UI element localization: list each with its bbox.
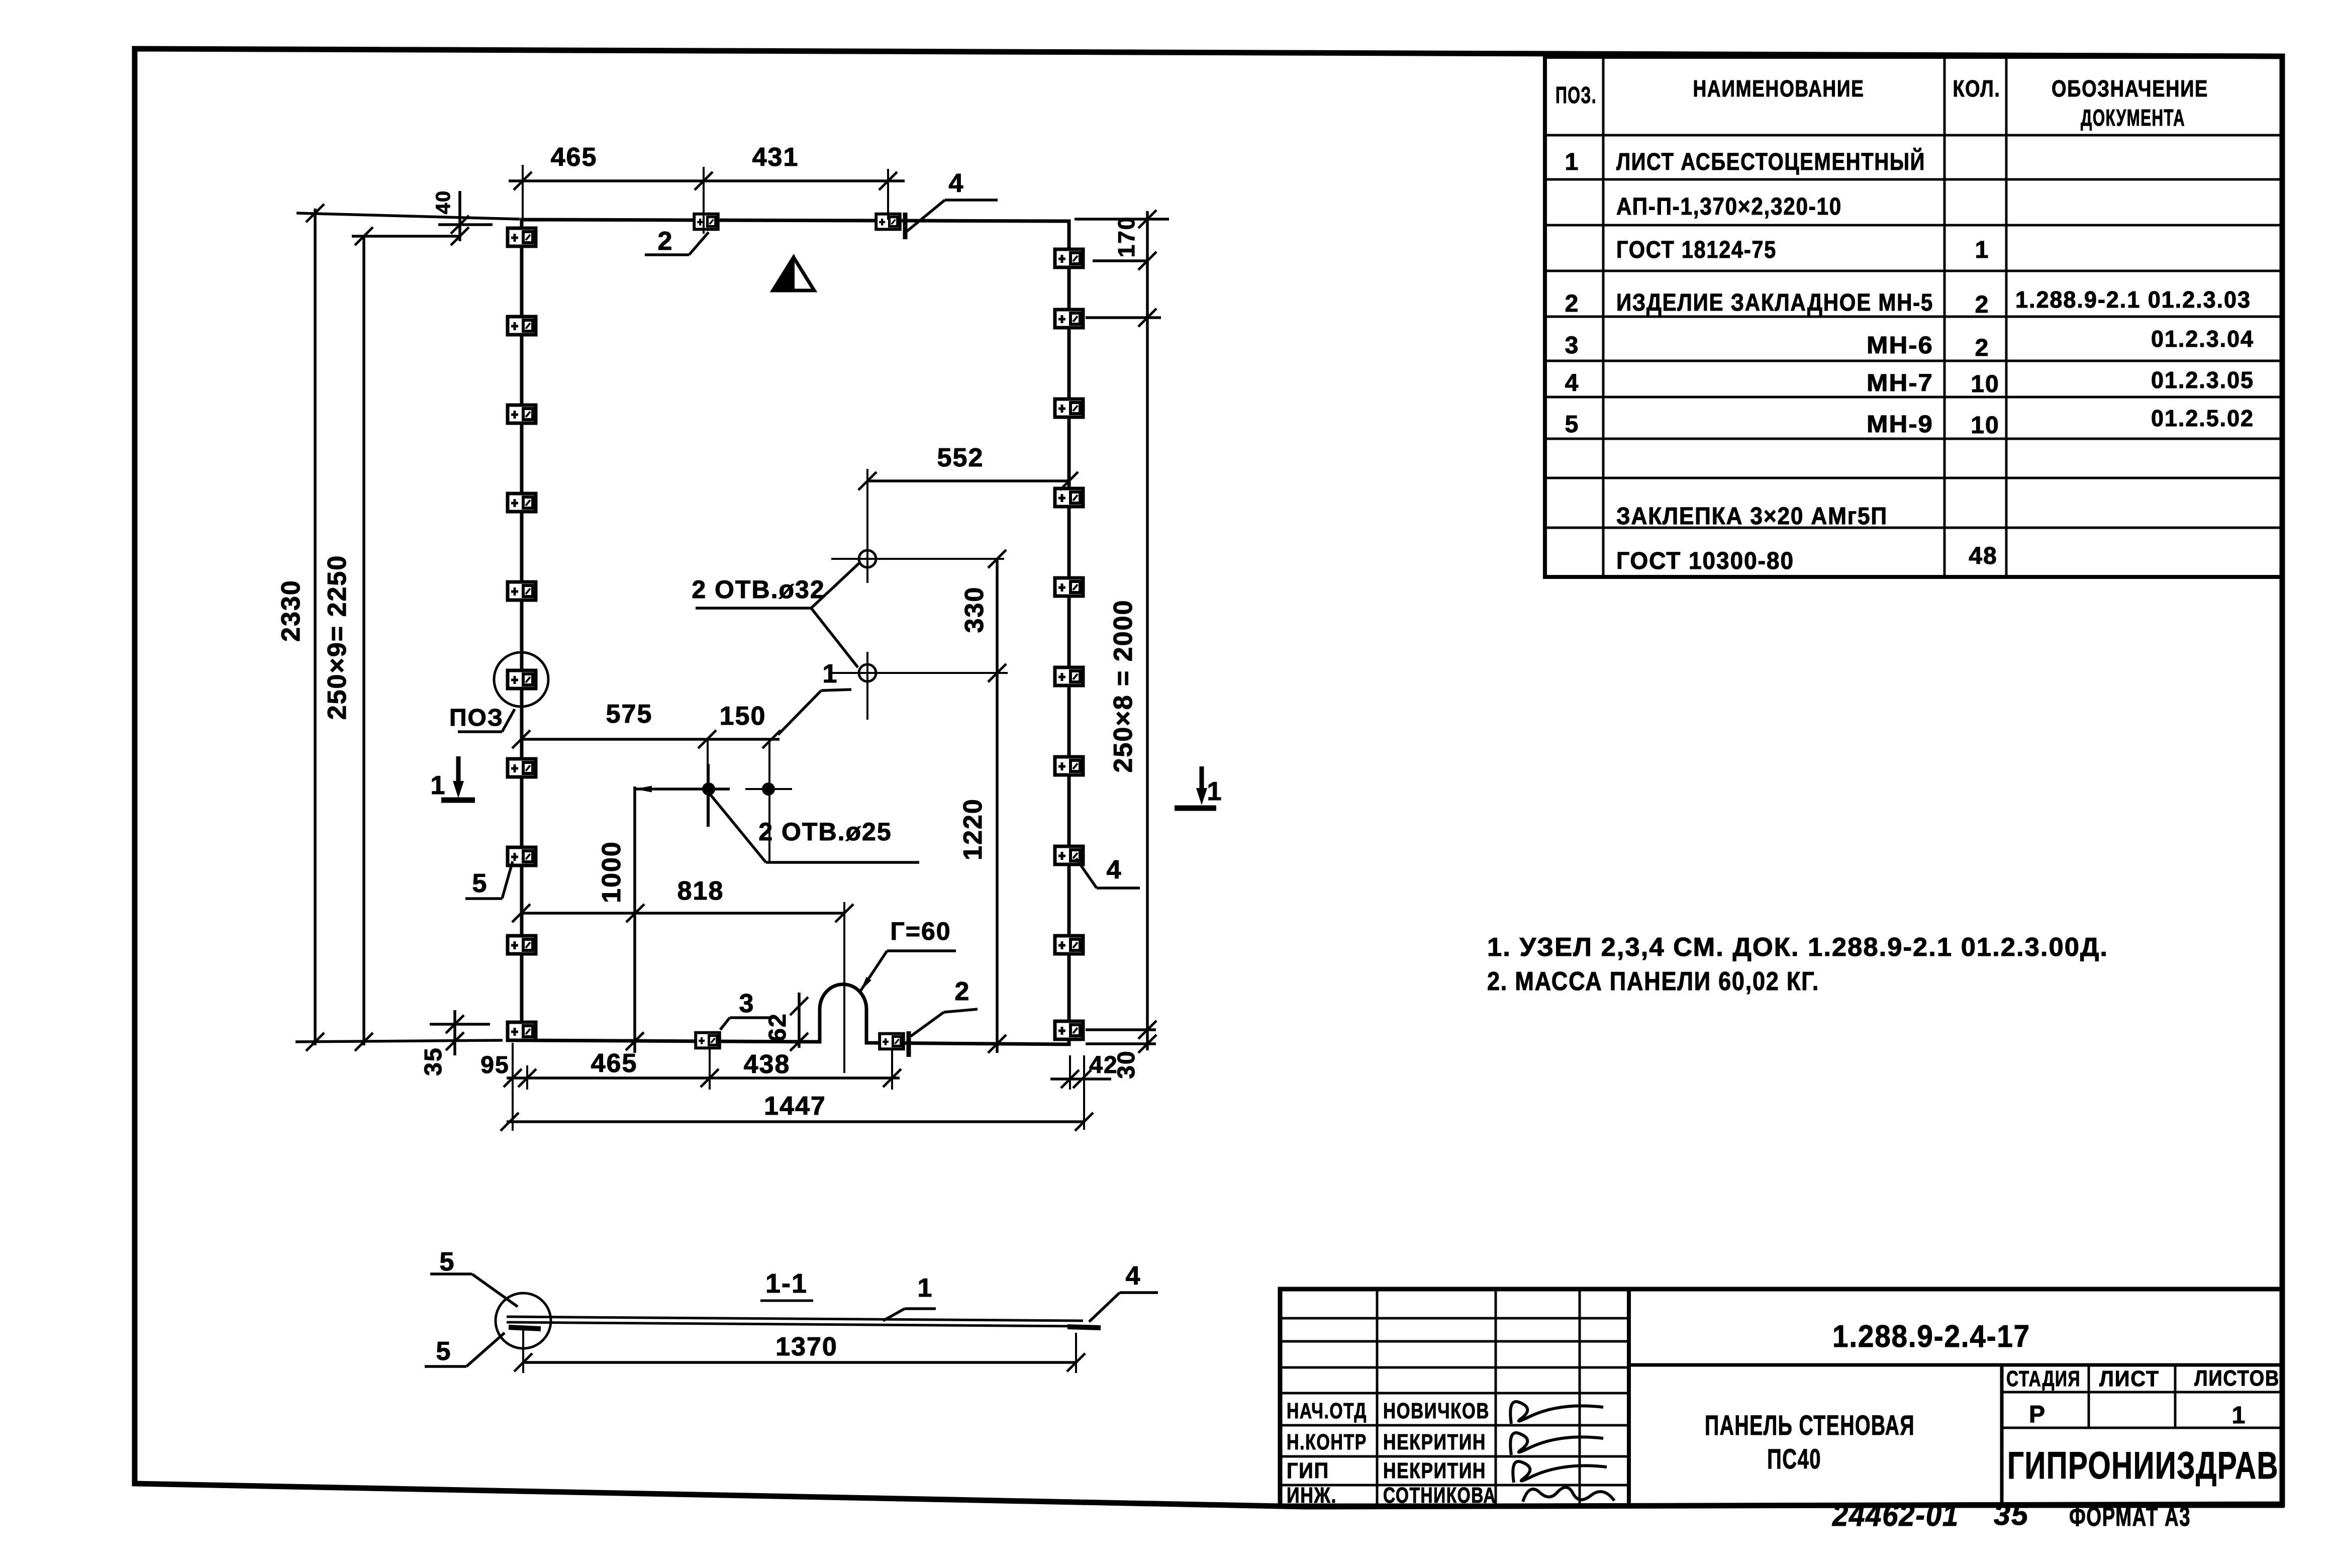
svg-text:КОЛ.: КОЛ. xyxy=(1953,75,2001,102)
svg-text:ИЗДЕЛИЕ ЗАКЛАДНОЕ МН-5: ИЗДЕЛИЕ ЗАКЛАДНОЕ МН-5 xyxy=(1616,289,1933,316)
svg-text:ЗАКЛЕПКА 3×20 АМг5П: ЗАКЛЕПКА 3×20 АМг5П xyxy=(1616,503,1888,530)
embedded plate MH-5 top 1 xyxy=(694,214,718,230)
embedded plate MH-7 right 3 xyxy=(1055,399,1083,417)
svg-text:48: 48 xyxy=(1969,543,1997,569)
svg-text:1-1: 1-1 xyxy=(765,1268,808,1299)
svg-text:170: 170 xyxy=(1113,216,1139,258)
svg-text:552: 552 xyxy=(937,443,984,472)
embedded plate MH-7 right 7 xyxy=(1055,757,1083,775)
embedded plate MH-9 left 2 xyxy=(508,317,536,335)
svg-text:438: 438 xyxy=(744,1050,791,1079)
svg-text:ПОЗ.: ПОЗ. xyxy=(1555,82,1597,108)
embedded plate MH-6 bottom 1 xyxy=(696,1033,720,1048)
svg-text:2: 2 xyxy=(658,227,673,256)
extension first right bracket xyxy=(1093,259,1146,262)
dim 62 xyxy=(798,993,801,1048)
svg-text:1220: 1220 xyxy=(958,798,988,860)
svg-text:10: 10 xyxy=(1971,371,1999,398)
embedded plate MH-9 left 9 xyxy=(508,936,536,954)
svg-text:СОТНИКОВА: СОТНИКОВА xyxy=(1383,1483,1496,1508)
callout circle ПОЗ around left plate 6 xyxy=(494,652,548,707)
svg-text:НАИМЕНОВАНИЕ: НАИМЕНОВАНИЕ xyxy=(1693,75,1865,102)
hole d32 lower xyxy=(859,664,876,681)
svg-text:818: 818 xyxy=(677,876,724,906)
title block outer xyxy=(1280,1289,2282,1506)
dim 818 xyxy=(521,912,844,915)
hole d25 left xyxy=(702,782,715,796)
svg-text:ГОСТ 18124-75: ГОСТ 18124-75 xyxy=(1616,237,1777,263)
embedded plate MH-7 right 1 xyxy=(1055,249,1083,267)
embedded plate MH-7 right 2 xyxy=(1055,310,1083,328)
svg-text:250×9= 2250: 250×9= 2250 xyxy=(323,555,352,720)
svg-text:ЛИСТОВ: ЛИСТОВ xyxy=(2194,1366,2280,1391)
svg-text:1: 1 xyxy=(2232,1402,2247,1429)
svg-text:ГИПРОНИИЗДРАВ: ГИПРОНИИЗДРАВ xyxy=(2007,1444,2279,1487)
svg-text:НАЧ.ОТД: НАЧ.ОТД xyxy=(1287,1399,1367,1423)
svg-text:1: 1 xyxy=(1975,237,1990,263)
svg-text:4: 4 xyxy=(1107,855,1122,885)
svg-text:4: 4 xyxy=(1126,1261,1141,1291)
svg-text:1370: 1370 xyxy=(775,1332,838,1361)
svg-text:575: 575 xyxy=(606,700,653,729)
embedded plate MH-9 left 6 xyxy=(508,670,536,689)
dim 2330 vertical line xyxy=(314,209,317,1045)
svg-text:3: 3 xyxy=(739,989,755,1018)
svg-text:1.288.9-2.4-17: 1.288.9-2.4-17 xyxy=(1832,1319,2030,1354)
embedded plate MH-7 right 10 xyxy=(1055,1021,1083,1039)
svg-text:ГИП: ГИП xyxy=(1287,1458,1329,1483)
arch centerline xyxy=(843,902,845,1073)
section detail circle xyxy=(496,1293,551,1348)
svg-text:24462-01: 24462-01 xyxy=(1832,1498,1959,1533)
svg-text:35: 35 xyxy=(420,1047,447,1075)
embedded plate MH-7 right 6 xyxy=(1055,667,1083,685)
svg-text:01.2.3.05: 01.2.3.05 xyxy=(2151,367,2254,393)
svg-text:ЛИСТ: ЛИСТ xyxy=(2099,1366,2160,1391)
section mark 1 right xyxy=(1200,766,1204,792)
svg-text:1: 1 xyxy=(1207,777,1223,806)
extension right bracket2 level xyxy=(1086,316,1161,319)
svg-text:5: 5 xyxy=(436,1337,452,1366)
embedded plate MH-9 left 5 xyxy=(508,582,536,600)
dim 170 right xyxy=(1146,211,1149,317)
svg-text:1. УЗЕЛ 2,3,4 СМ. ДОК. 1.28: 1. УЗЕЛ 2,3,4 СМ. ДОК. 1.288.9-2.1 01.2.… xyxy=(1487,933,2108,962)
svg-text:ФОРМАТ А3: ФОРМАТ А3 xyxy=(2069,1502,2191,1532)
embedded plate MH-7 right 5 xyxy=(1055,578,1083,596)
hole d25 right xyxy=(762,782,775,796)
section sheet body xyxy=(507,1317,1083,1321)
svg-text:330: 330 xyxy=(960,586,989,633)
svg-text:5: 5 xyxy=(1565,411,1580,438)
embedded plate MH-9 left 7 xyxy=(508,759,536,777)
embedded plate MH-9 left 10 xyxy=(508,1022,536,1040)
extension panel top right xyxy=(1075,218,1169,221)
dim 250x8=2000 right xyxy=(1146,317,1149,1050)
section right plate MH-7 xyxy=(1067,1327,1101,1328)
svg-text:465: 465 xyxy=(591,1049,638,1078)
svg-text:431: 431 xyxy=(752,143,799,172)
embedded plate MH-7 right 8 xyxy=(1055,846,1083,864)
svg-text:1: 1 xyxy=(431,771,446,800)
orientation triangle mark xyxy=(773,257,814,290)
dim 330 xyxy=(996,559,999,673)
svg-text:01.2.5.02: 01.2.5.02 xyxy=(2151,405,2254,431)
hole d32 upper xyxy=(859,550,876,567)
svg-text:НЕКРИТИН: НЕКРИТИН xyxy=(1383,1458,1486,1483)
embedded plate MH-9 left 1 xyxy=(508,228,536,246)
embedded plate MH-9 left 8 xyxy=(508,847,536,865)
extension line bottom left xyxy=(296,1040,503,1042)
dim 1447 bottom xyxy=(507,1120,1084,1123)
svg-text:250×8 = 2000: 250×8 = 2000 xyxy=(1109,600,1138,773)
svg-text:Н.КОНТР: Н.КОНТР xyxy=(1287,1430,1367,1454)
svg-text:4: 4 xyxy=(1565,370,1580,397)
extension line first bracket level xyxy=(352,235,460,238)
svg-text:СТАДИЯ: СТАДИЯ xyxy=(2006,1366,2081,1391)
svg-text:4: 4 xyxy=(949,169,964,198)
section left plate MH-9 xyxy=(509,1327,541,1329)
svg-text:2 ОТВ.ø32: 2 ОТВ.ø32 xyxy=(692,575,825,604)
panel outline (main view) with arch cutout xyxy=(522,220,1069,1044)
svg-text:МН-6: МН-6 xyxy=(1867,332,1933,359)
svg-text:10: 10 xyxy=(1971,412,1999,439)
svg-text:2: 2 xyxy=(1565,290,1580,317)
svg-text:Р: Р xyxy=(2029,1401,2046,1428)
svg-text:2330: 2330 xyxy=(276,579,306,642)
dim 40 top xyxy=(438,223,493,226)
svg-text:465: 465 xyxy=(551,143,598,172)
svg-text:01.2.3.04: 01.2.3.04 xyxy=(2151,326,2254,352)
svg-text:2: 2 xyxy=(1975,291,1990,318)
dim 30 right rotated xyxy=(1138,1035,1156,1053)
svg-text:42: 42 xyxy=(1089,1052,1118,1079)
extension 35 vertical xyxy=(453,1010,456,1055)
extension bottom right stubs xyxy=(1086,1028,1156,1031)
svg-text:1447: 1447 xyxy=(764,1092,826,1121)
svg-text:2: 2 xyxy=(955,977,970,1006)
svg-text:МН-7: МН-7 xyxy=(1867,370,1933,397)
embedded plate MH-6 bottom 2 xyxy=(880,1034,904,1049)
parts table grid xyxy=(1545,57,2282,577)
dim 250x9=2250 vertical line xyxy=(362,236,365,1045)
dim 575 / 150 xyxy=(521,738,780,741)
svg-text:1: 1 xyxy=(1565,149,1580,175)
svg-text:ОБОЗНАЧЕНИЕ: ОБОЗНАЧЕНИЕ xyxy=(2052,75,2208,102)
svg-text:Г=60: Г=60 xyxy=(890,917,951,945)
svg-text:1: 1 xyxy=(823,659,838,689)
dim 42 bottom right xyxy=(1050,1077,1111,1081)
svg-text:3: 3 xyxy=(1565,332,1580,359)
dim 552 xyxy=(867,479,1069,482)
embedded plate MH-9 left 4 xyxy=(508,494,536,512)
svg-text:ДОКУМЕНТА: ДОКУМЕНТА xyxy=(2081,105,2185,131)
svg-text:ПАНЕЛЬ СТЕНОВАЯ: ПАНЕЛЬ СТЕНОВАЯ xyxy=(1705,1409,1915,1441)
svg-text:1.288.9-2.1 01.2.3.03: 1.288.9-2.1 01.2.3.03 xyxy=(2015,286,2251,313)
svg-text:1000: 1000 xyxy=(597,841,626,903)
dim 465 / 431 top xyxy=(509,179,905,182)
embedded plate MH-7 right 9 xyxy=(1055,936,1083,954)
dim 1220 xyxy=(996,673,999,1053)
svg-text:МН-9: МН-9 xyxy=(1867,411,1933,438)
dim 1000 xyxy=(635,788,730,791)
svg-text:ПОЗ: ПОЗ xyxy=(449,705,504,731)
section mark 1 left xyxy=(456,756,461,784)
embedded plate MH-7 right 4 xyxy=(1055,488,1083,507)
svg-text:НЕКРИТИН: НЕКРИТИН xyxy=(1383,1430,1486,1454)
signatures xyxy=(1510,1402,1614,1502)
embedded plate MH-5 top 2 xyxy=(876,214,900,230)
extension line top left xyxy=(297,213,520,219)
dim 35 bottom left xyxy=(430,1023,490,1026)
svg-text:ИНЖ.: ИНЖ. xyxy=(1287,1483,1337,1508)
svg-text:2. МАССА ПАНЕЛИ 60,02 КГ.: 2. МАССА ПАНЕЛИ 60,02 КГ. xyxy=(1487,967,1819,996)
svg-text:2: 2 xyxy=(1975,335,1990,361)
svg-text:5: 5 xyxy=(472,869,488,898)
title block left grid xyxy=(1280,1289,2282,1506)
svg-text:150: 150 xyxy=(720,702,766,731)
dim 1370 section xyxy=(523,1361,1076,1364)
svg-text:АП-П-1,370×2,320-10: АП-П-1,370×2,320-10 xyxy=(1616,193,1842,220)
dim 95 465 438 bottom xyxy=(507,1076,900,1080)
svg-text:ГОСТ 10300-80: ГОСТ 10300-80 xyxy=(1616,548,1794,574)
svg-text:ПС40: ПС40 xyxy=(1767,1443,1821,1475)
svg-text:ЛИСТ АСБЕСТОЦЕМЕНТНЫЙ: ЛИСТ АСБЕСТОЦЕМЕНТНЫЙ xyxy=(1616,148,1925,175)
svg-text:40: 40 xyxy=(432,190,454,215)
svg-text:НОВИЧКОВ: НОВИЧКОВ xyxy=(1383,1399,1490,1423)
embedded plate MH-9 left 3 xyxy=(508,405,536,423)
svg-text:1: 1 xyxy=(918,1273,933,1303)
svg-text:5: 5 xyxy=(440,1247,455,1277)
svg-text:35: 35 xyxy=(1994,1499,2029,1531)
svg-text:2 ОТВ.ø25: 2 ОТВ.ø25 xyxy=(758,818,892,846)
svg-text:95: 95 xyxy=(480,1052,509,1079)
